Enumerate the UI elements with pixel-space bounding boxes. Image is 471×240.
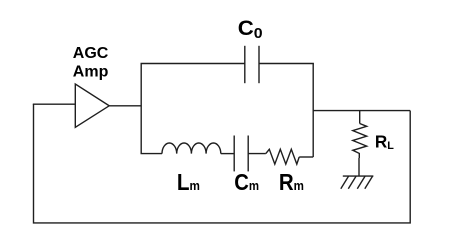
ground [341, 176, 374, 189]
label C0 [238, 16, 263, 42]
wire Cm to Rm [248, 153, 266, 155]
resistor Rm [266, 149, 299, 164]
wire bottom branch left [141, 153, 163, 155]
wire resonator left vertical [140, 64, 142, 154]
wire feedback loop (left vertical, bottom, right vertical) [34, 104, 411, 223]
capacitor Cm [234, 136, 248, 172]
svg-text:Amp: Amp [73, 64, 109, 81]
wire resonator right vertical [312, 64, 314, 158]
svg-text:Cm: Cm [234, 169, 259, 196]
op-amp U1 AGC Amp triangle [75, 84, 109, 127]
label Cm [234, 169, 259, 196]
wire output node to load [313, 110, 410, 112]
label Lm [177, 169, 200, 195]
wire top branch right [259, 63, 314, 65]
inductor Lm [162, 143, 221, 154]
label Rm [279, 169, 304, 195]
label AGC Amp [73, 45, 109, 81]
wire RL top stem [359, 111, 361, 124]
wire amp output [109, 105, 141, 107]
wire amp input [33, 103, 76, 105]
resistor RL [353, 124, 367, 159]
svg-text:Lm: Lm [177, 169, 200, 195]
wire Rm to right vertical [299, 156, 313, 158]
wire Lm to Cm [221, 153, 234, 155]
capacitor C0 [245, 46, 259, 83]
wire RL bottom stem [358, 158, 360, 176]
wire top branch left [141, 63, 245, 65]
svg-text:RL: RL [375, 131, 394, 152]
label RL [375, 131, 394, 152]
svg-text:C0: C0 [238, 16, 263, 42]
svg-text:AGC: AGC [73, 45, 109, 62]
svg-text:Rm: Rm [279, 169, 304, 195]
